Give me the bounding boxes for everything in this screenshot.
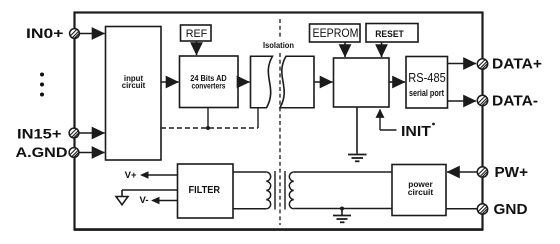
- svg-text:REF: REF: [186, 28, 208, 40]
- svg-text:circuit: circuit: [122, 80, 146, 90]
- svg-text:FILTER: FILTER: [189, 185, 221, 196]
- svg-text:A.GND: A.GND: [16, 144, 68, 160]
- svg-text:DATA+: DATA+: [492, 56, 542, 73]
- svg-text:Isolation: Isolation: [263, 41, 294, 50]
- svg-text:RS-485: RS-485: [408, 71, 446, 85]
- svg-text:INIT: INIT: [401, 124, 431, 140]
- svg-text:PW+: PW+: [495, 164, 529, 181]
- svg-text:GND: GND: [494, 201, 528, 218]
- svg-text:circuit: circuit: [408, 187, 434, 197]
- svg-text:DATA-: DATA-: [492, 93, 538, 110]
- svg-text:V-: V-: [140, 195, 149, 206]
- svg-text:RESET: RESET: [375, 29, 404, 40]
- svg-text:serial port: serial port: [409, 88, 444, 98]
- svg-text:converters: converters: [192, 81, 226, 91]
- svg-text:V+: V+: [125, 170, 137, 181]
- svg-text:EEPROM: EEPROM: [313, 26, 359, 40]
- svg-text:IN0+: IN0+: [26, 25, 64, 41]
- svg-text:IN15+: IN15+: [17, 125, 62, 141]
